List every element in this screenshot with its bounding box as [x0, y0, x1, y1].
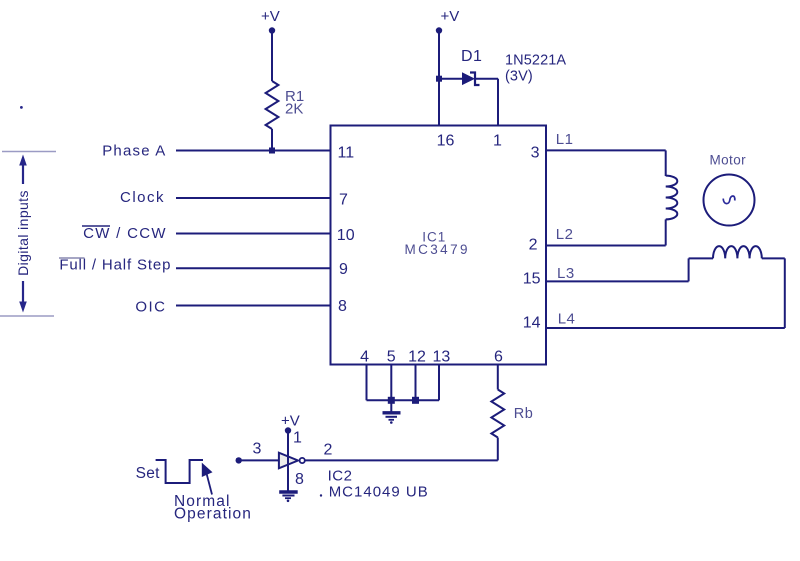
- svg-text:MC14049 UB: MC14049 UB: [329, 484, 429, 501]
- svg-text:2: 2: [529, 236, 538, 253]
- svg-text:16: 16: [437, 133, 455, 150]
- svg-text:15: 15: [523, 271, 541, 288]
- svg-text:Set: Set: [136, 465, 161, 482]
- svg-text:Motor: Motor: [710, 153, 747, 168]
- svg-text:9: 9: [339, 261, 348, 278]
- svg-text:L4: L4: [558, 311, 576, 328]
- svg-text:4: 4: [360, 348, 369, 365]
- svg-text:OIC: OIC: [135, 298, 166, 315]
- svg-text:8: 8: [338, 298, 347, 315]
- svg-text:2K: 2K: [285, 101, 303, 118]
- svg-text:6: 6: [494, 348, 503, 365]
- svg-text:3: 3: [253, 441, 262, 458]
- svg-text:2: 2: [324, 442, 333, 459]
- svg-text:+V: +V: [261, 8, 280, 25]
- svg-text:7: 7: [339, 191, 348, 208]
- svg-text:1: 1: [293, 430, 302, 447]
- svg-text:Clock: Clock: [120, 189, 165, 206]
- svg-text:8: 8: [295, 471, 304, 488]
- svg-text:Phase A: Phase A: [102, 142, 166, 159]
- svg-text:Rb: Rb: [514, 406, 534, 422]
- svg-text:D1: D1: [461, 48, 482, 65]
- svg-text:Full / Half Step: Full / Half Step: [59, 256, 171, 273]
- svg-text:L1: L1: [556, 131, 574, 148]
- svg-text:14: 14: [523, 315, 541, 332]
- svg-text:IC2: IC2: [328, 468, 353, 485]
- svg-text:3: 3: [531, 144, 540, 161]
- svg-text:(3V): (3V): [505, 69, 533, 85]
- svg-text:Operation: Operation: [174, 505, 252, 522]
- svg-text:1: 1: [493, 133, 502, 150]
- svg-text:12: 12: [408, 348, 426, 365]
- svg-text:5: 5: [387, 348, 396, 365]
- svg-text:L3: L3: [557, 265, 575, 282]
- svg-text:1N5221A: 1N5221A: [505, 53, 566, 69]
- svg-text:MC3479: MC3479: [404, 242, 469, 257]
- svg-text:CW / CCW: CW / CCW: [83, 225, 167, 242]
- svg-text:Digital inputs: Digital inputs: [15, 190, 31, 276]
- svg-text:L2: L2: [556, 226, 574, 243]
- svg-text:11: 11: [338, 144, 355, 161]
- svg-text:+V: +V: [281, 413, 300, 430]
- svg-text:13: 13: [433, 348, 451, 365]
- svg-text:10: 10: [337, 227, 355, 244]
- svg-text:+V: +V: [441, 8, 460, 25]
